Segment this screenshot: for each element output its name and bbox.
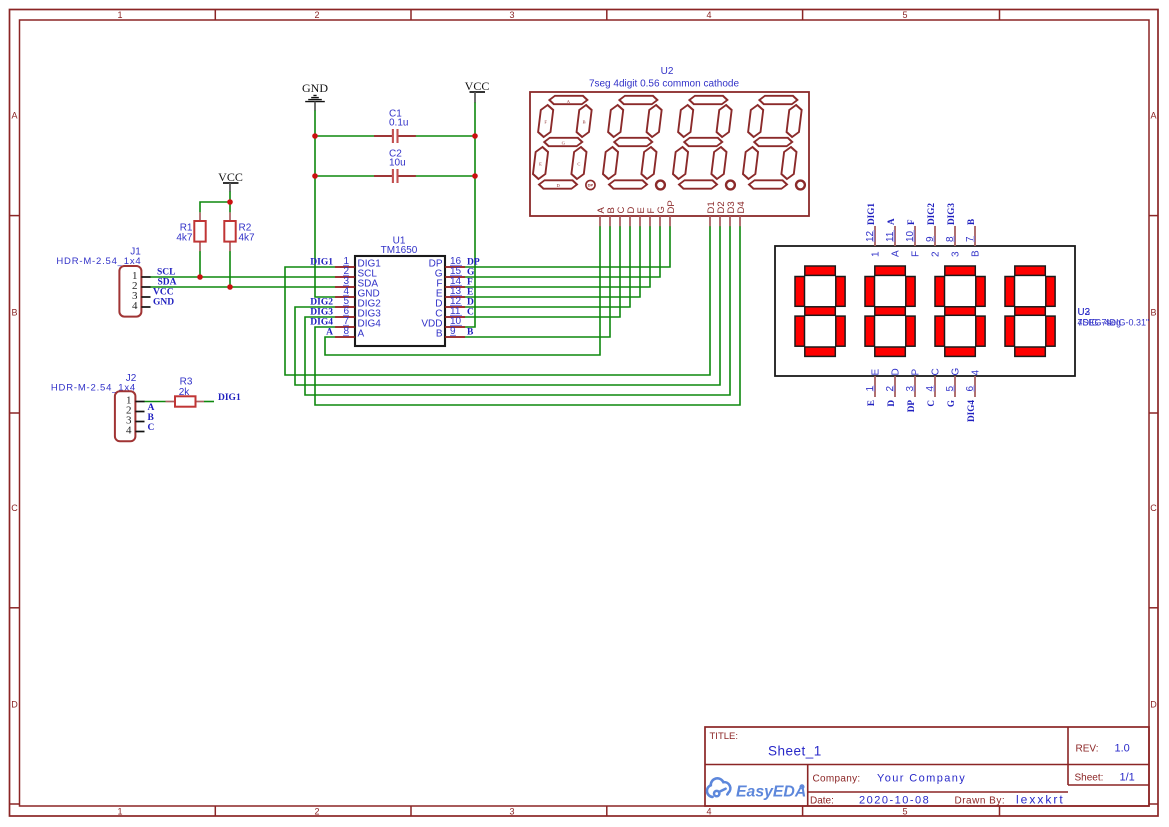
U3 pin 6 (4) bottom — [965, 370, 982, 398]
wire DIG3 U1.6 to U2.D3 — [305, 226, 730, 395]
resistor R3 2k — [166, 377, 205, 407]
wire R1 bottom to SCL — [199, 251, 201, 277]
svg-text:DP: DP — [467, 257, 480, 267]
U2 7seg digit1 — [531, 96, 593, 189]
J1 pin 3 — [141, 296, 150, 298]
svg-text:C: C — [1150, 503, 1157, 513]
svg-text:DP: DP — [906, 400, 916, 413]
svg-text:TM1650: TM1650 — [381, 245, 418, 256]
svg-text:E: E — [539, 162, 542, 167]
svg-text:4: 4 — [126, 424, 132, 436]
GND symbol — [302, 81, 328, 111]
U1 pin 1 DIG1 — [335, 256, 381, 269]
U1 pin 7 DIG4 — [335, 316, 381, 329]
frame column numbers bottom — [117, 807, 907, 817]
U1 pin 11 C — [435, 306, 465, 319]
svg-text:DIG4: DIG4 — [310, 317, 333, 327]
svg-text:D4: D4 — [736, 201, 747, 213]
U1 pin 3 SDA — [335, 276, 378, 289]
wire C U1.11 to U2.C — [465, 226, 620, 317]
svg-text:C: C — [467, 307, 474, 317]
U3 overlapped value labels — [1078, 318, 1150, 328]
junction VCC/C1 — [472, 133, 478, 139]
U3 pin 5 (G) bottom — [945, 368, 962, 398]
op-amp U1 TM1650 IC body — [355, 236, 445, 347]
U2 pin C — [616, 207, 627, 227]
U2 digit1 DP circle — [586, 180, 595, 189]
resistor R1 4k7 — [176, 212, 205, 251]
svg-text:4k7: 4k7 — [176, 233, 193, 244]
wire B U1.9 to U2.B — [465, 226, 610, 337]
wire GND rail down to U1.4 — [315, 110, 335, 297]
svg-text:7seg 4digit 0.56 common cathod: 7seg 4digit 0.56 common cathode — [589, 79, 740, 90]
svg-text:4: 4 — [706, 807, 711, 817]
U2 7seg digit4 — [741, 96, 803, 189]
svg-text:DIG3: DIG3 — [310, 307, 333, 317]
U2 pin DP — [666, 200, 677, 226]
U3 7seg digit3 — [935, 266, 985, 356]
svg-text:5: 5 — [902, 807, 907, 817]
U2 pin D3 — [726, 201, 737, 226]
svg-text:U2: U2 — [661, 66, 674, 77]
svg-text:0.1u: 0.1u — [389, 118, 408, 129]
svg-text:D: D — [890, 368, 901, 375]
svg-text:C: C — [11, 503, 18, 513]
svg-text:4DIG-7seg: 4DIG-7seg — [1078, 318, 1122, 328]
U3 pin 3 (P) bottom — [905, 369, 922, 398]
J2 pin 2 — [135, 411, 144, 413]
wire F U1.14 to U2.F — [465, 226, 650, 287]
svg-text:2: 2 — [314, 807, 319, 817]
U1 pin 9 B — [436, 326, 465, 339]
svg-text:D: D — [886, 400, 896, 407]
svg-text:G: G — [467, 267, 475, 277]
svg-text:2: 2 — [930, 251, 941, 257]
svg-text:B: B — [970, 250, 981, 257]
capacitor C2 10u — [374, 149, 416, 184]
svg-text:GND: GND — [302, 81, 328, 95]
U1 pin 15 G — [435, 266, 465, 279]
svg-text:C: C — [577, 162, 580, 167]
wire R3 to DIG1 label — [204, 401, 214, 403]
capacitor C1 0.1u — [374, 109, 416, 144]
VCC symbol (left, above R1 R2) — [218, 170, 243, 192]
svg-text:F: F — [906, 219, 916, 225]
frame column numbers top — [117, 10, 907, 20]
wire SCL J1.1 to U1.2 — [150, 276, 335, 278]
svg-text:SCL: SCL — [157, 267, 175, 277]
title block table — [705, 727, 1149, 806]
wire VCC junction to R2 top — [229, 202, 231, 212]
svg-text:5: 5 — [902, 10, 907, 20]
svg-text:C: C — [926, 400, 936, 407]
svg-text:D: D — [467, 297, 474, 307]
svg-text:1: 1 — [117, 807, 122, 817]
svg-text:3: 3 — [950, 251, 961, 257]
svg-text:F: F — [467, 277, 473, 287]
svg-text:4: 4 — [706, 10, 711, 20]
svg-text:P: P — [910, 369, 921, 376]
wire C1 right — [416, 135, 476, 137]
svg-text:F: F — [910, 251, 921, 257]
wire DP U1.16 to U2.DP — [465, 226, 670, 267]
wire VCC stem to junction — [229, 191, 231, 202]
svg-text:B: B — [1150, 308, 1156, 318]
svg-text:U3: U3 — [1078, 307, 1091, 318]
svg-text:2k: 2k — [179, 387, 191, 398]
wire DIG1 U1.1 to U2.D1 — [285, 226, 710, 375]
junction R2/SDA — [227, 284, 233, 290]
svg-text:DP: DP — [666, 200, 677, 213]
J1 pin 1 — [141, 276, 150, 278]
svg-text:DP: DP — [588, 183, 594, 188]
J2 pin 1 — [135, 401, 144, 403]
svg-text:VCC: VCC — [153, 287, 174, 297]
U2 pin D4 — [736, 201, 747, 226]
U3 pin 4 (C) bottom — [925, 368, 942, 397]
U1 pin 16 DP — [429, 256, 465, 269]
junction VCC/C2 — [472, 173, 478, 179]
svg-text:DIG4: DIG4 — [966, 400, 976, 422]
svg-text:B: B — [148, 413, 155, 423]
U1 pin 8 A — [335, 326, 365, 339]
U1 pin 13 E — [436, 286, 465, 299]
U3 pin 8 (3) top — [945, 226, 962, 257]
svg-text:Date:: Date: — [810, 796, 834, 807]
EasyEDA logo — [707, 778, 806, 800]
svg-text:EasyEDA: EasyEDA — [736, 784, 806, 801]
U2 pin D2 — [716, 201, 727, 226]
U2 digit2 DP circle — [656, 181, 665, 190]
U3 pin 7 (B) top — [965, 226, 982, 257]
U3 pin 9 (2) top — [925, 226, 942, 257]
svg-text:DIG2: DIG2 — [310, 297, 333, 307]
wire C1 left — [315, 135, 374, 137]
svg-text:4: 4 — [970, 370, 981, 376]
svg-text:4: 4 — [132, 300, 138, 312]
U1 pin 2 SCL — [335, 266, 377, 279]
U3 pin 2 (D) bottom — [885, 368, 902, 397]
svg-text:VCC: VCC — [218, 170, 243, 184]
J1 pin 2 — [141, 286, 150, 288]
U2 digit3 DP circle — [726, 181, 735, 190]
resistor R2 4k7 — [224, 212, 255, 251]
U2 pin B — [606, 207, 617, 226]
U2 pin F — [646, 208, 657, 227]
U2 pin D — [626, 207, 637, 227]
wire C2 left — [315, 175, 374, 177]
U2 digit4 DP circle — [796, 181, 805, 190]
frame row letters — [11, 111, 1157, 710]
U2 pin E — [636, 207, 647, 226]
svg-text:DIG1: DIG1 — [218, 393, 241, 403]
svg-text:Sheet:: Sheet: — [1075, 773, 1104, 784]
J1 pin 4 — [141, 306, 150, 308]
U3 pin 10 (F) top — [905, 226, 922, 257]
svg-text:A: A — [11, 111, 17, 121]
wire R2 bottom to SDA — [229, 251, 231, 287]
svg-text:D: D — [11, 700, 18, 710]
svg-text:2020-10-08: 2020-10-08 — [859, 795, 930, 807]
U2 pin D1 — [706, 201, 717, 226]
svg-text:Company:: Company: — [813, 774, 861, 785]
U1 pin 14 F — [436, 276, 465, 289]
U2 pin A — [596, 207, 607, 227]
junction VCC/R1/R2 — [227, 199, 233, 205]
U2 pin G — [656, 206, 667, 226]
svg-text:B: B — [583, 120, 586, 125]
connector J2 HDR-M-2.54_1x4 — [51, 373, 145, 441]
junction R1/SCL — [197, 274, 203, 280]
VCC symbol (right, above U1 VDD rail) — [465, 79, 490, 103]
svg-text:B: B — [966, 219, 976, 225]
U3 pin 11 (A) top — [885, 226, 902, 257]
svg-text:1: 1 — [117, 10, 122, 20]
svg-text:DIG1: DIG1 — [310, 257, 333, 267]
wire J2.1 to R3 — [144, 401, 166, 403]
svg-text:3: 3 — [509, 10, 514, 20]
wire E U1.13 to U2.E — [465, 226, 640, 297]
svg-text:Your Company: Your Company — [877, 773, 966, 785]
svg-text:B: B — [467, 327, 474, 337]
svg-text:SDA: SDA — [158, 277, 177, 287]
svg-text:G: G — [946, 400, 956, 407]
U2 7seg digit3 — [671, 96, 733, 189]
svg-text:A: A — [148, 403, 155, 413]
svg-text:E: E — [870, 369, 881, 376]
U2 digit1 segment letters — [539, 99, 585, 188]
svg-text:TITLE:: TITLE: — [710, 731, 739, 742]
U1 pin 5 DIG2 — [335, 296, 381, 309]
U1 pin 4 GND — [335, 286, 380, 299]
U1 pin 10 VDD — [421, 316, 465, 329]
svg-text:1/1: 1/1 — [1120, 772, 1135, 784]
junction GND/C2 — [312, 173, 318, 179]
J2 pin 4 — [135, 431, 144, 433]
U3 7seg digit1 — [795, 266, 845, 356]
U1 pin 6 DIG3 — [335, 306, 381, 319]
svg-text:DIG1: DIG1 — [866, 203, 876, 225]
U3 pin 1 (E) bottom — [865, 369, 882, 398]
display U2 body — [530, 92, 809, 216]
display U3 body — [775, 246, 1075, 376]
svg-text:3: 3 — [509, 807, 514, 817]
svg-text:B: B — [11, 308, 17, 318]
svg-text:A: A — [890, 250, 901, 257]
svg-text:REV:: REV: — [1076, 744, 1099, 755]
svg-text:4k7: 4k7 — [239, 233, 256, 244]
wire G U1.15 to U2.G — [465, 226, 660, 277]
svg-text:C: C — [148, 423, 155, 433]
svg-text:DIG2: DIG2 — [926, 203, 936, 225]
junction GND/C1 — [312, 133, 318, 139]
U3 7seg digit2 — [865, 266, 915, 356]
svg-text:D: D — [1150, 700, 1157, 710]
svg-text:lexxkrt: lexxkrt — [1016, 793, 1065, 807]
wire VCC rail down to U1.10 VDD — [465, 102, 475, 327]
svg-text:GND: GND — [153, 298, 174, 308]
wire VCC junction to R1 top — [200, 202, 230, 212]
J2 pin 3 — [135, 421, 144, 423]
wire SDA J1.2 to U1.3 — [150, 286, 335, 288]
svg-text:B: B — [436, 328, 443, 339]
svg-text:1: 1 — [870, 251, 881, 257]
svg-text:2: 2 — [314, 10, 319, 20]
wire C2 right — [416, 175, 476, 177]
U3 overlapped designators U2/U3 — [1078, 307, 1091, 318]
svg-text:Drawn By:: Drawn By: — [955, 796, 1006, 807]
U3 pin 12 (1) top — [865, 226, 882, 257]
svg-text:VCC: VCC — [465, 79, 490, 93]
svg-text:1.0: 1.0 — [1115, 743, 1130, 755]
wire DIG2 U1.5 to U2.D2 — [295, 226, 720, 385]
svg-text:E: E — [866, 400, 876, 406]
U1 pin 12 D — [435, 296, 465, 309]
wire DIG4 U1.7 to U2.D4 — [315, 226, 740, 405]
svg-text:A: A — [326, 327, 333, 337]
wire D U1.12 to U2.D — [465, 226, 630, 307]
connector J1 HDR-M-2.54_1x4 — [56, 247, 150, 317]
svg-text:Sheet_1: Sheet_1 — [768, 744, 822, 759]
svg-text:DIG3: DIG3 — [946, 203, 956, 225]
svg-text:10u: 10u — [389, 158, 406, 169]
svg-text:A: A — [886, 218, 896, 225]
svg-text:E: E — [467, 287, 473, 297]
svg-text:A: A — [1150, 111, 1156, 121]
U3 7seg digit4 — [1005, 266, 1055, 356]
svg-text:A: A — [358, 328, 365, 339]
U2 7seg digit2 — [601, 96, 663, 189]
wire A U1.8 to U2.A — [325, 226, 600, 355]
svg-text:C: C — [930, 368, 941, 375]
svg-text:G: G — [950, 368, 961, 376]
